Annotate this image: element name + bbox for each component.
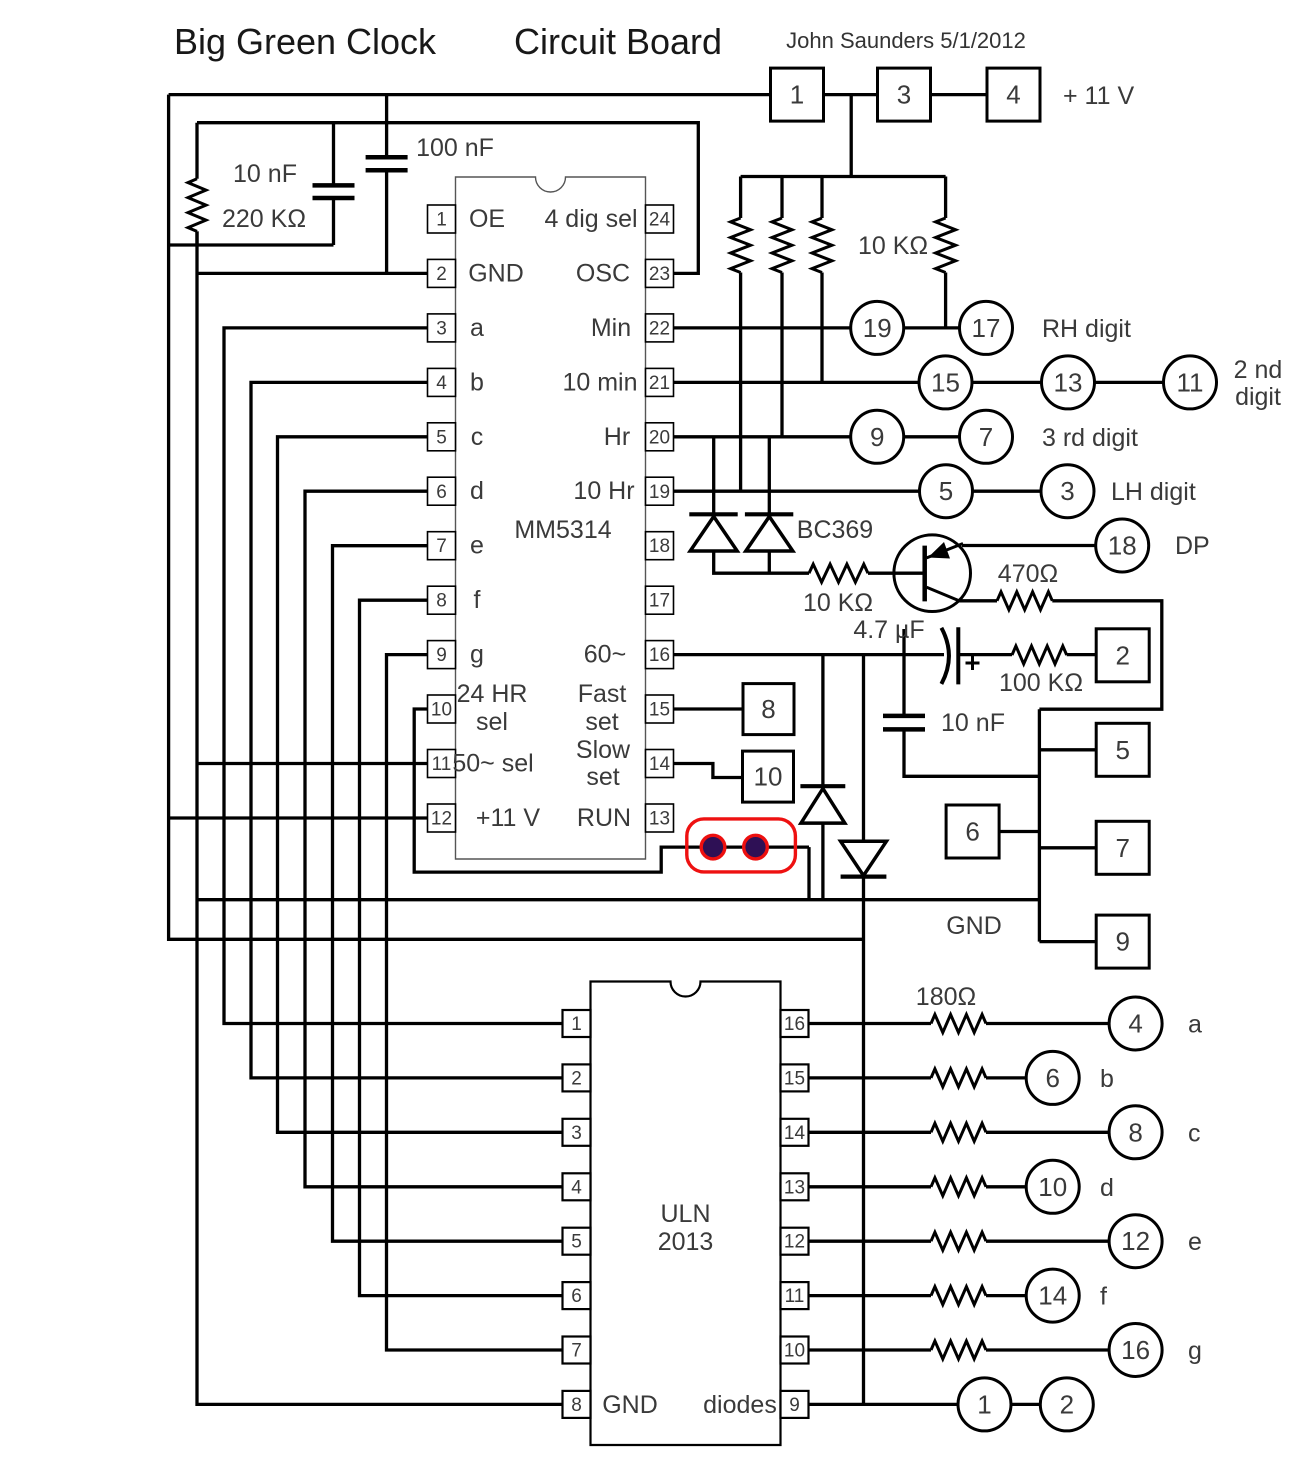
node pad 14 segment f bbox=[1026, 1269, 1079, 1322]
svg-text:7: 7 bbox=[436, 536, 447, 557]
svg-text:4: 4 bbox=[436, 373, 447, 394]
svg-text:Hr: Hr bbox=[604, 423, 630, 451]
svg-text:10 Hr: 10 Hr bbox=[573, 477, 634, 505]
capacitor 10 nF plates bbox=[313, 185, 355, 198]
wire Q1 emitter to pad 18 (DP) bbox=[962, 544, 1096, 547]
svg-text:MM5314: MM5314 bbox=[514, 516, 611, 544]
wire ULN pin 10 to 180 ohm resistor bbox=[809, 1348, 932, 1351]
node pad 2 square bbox=[1096, 629, 1149, 682]
resistor 180 ohm row 10 bbox=[931, 1341, 986, 1359]
wire 180 ohm resistor to pad, row 13 bbox=[986, 1185, 1026, 1188]
node pad 9 bbox=[851, 410, 904, 463]
svg-text:17: 17 bbox=[972, 313, 1001, 343]
wire OSC net: top line, right drop into pin 23 bbox=[197, 123, 698, 274]
pin 13 MM5314 bbox=[646, 804, 674, 832]
svg-text:Big Green Clock: Big Green Clock bbox=[174, 21, 437, 62]
svg-text:22: 22 bbox=[649, 318, 670, 339]
op-chip U2 ULN2013 body bbox=[591, 982, 781, 1446]
svg-text:diodes: diodes bbox=[703, 1391, 777, 1419]
capacitor 10 nF lower bbox=[883, 716, 925, 730]
node pad 18 (DP) bbox=[1096, 519, 1149, 572]
node pad 4 segment a bbox=[1109, 997, 1162, 1050]
pin 9 MM5314 bbox=[428, 641, 456, 669]
svg-text:11: 11 bbox=[1177, 367, 1204, 397]
wire +11V top frame to connector 1 bbox=[169, 93, 771, 96]
pin 18 MM5314 bbox=[646, 532, 674, 560]
pin 19 MM5314 bbox=[646, 477, 674, 505]
svg-text:12: 12 bbox=[784, 1232, 805, 1253]
svg-text:2: 2 bbox=[436, 264, 447, 285]
svg-text:7: 7 bbox=[571, 1341, 582, 1362]
pin 21 MM5314 bbox=[646, 368, 674, 396]
svg-text:7: 7 bbox=[979, 422, 993, 452]
pin 4 MM5314 bbox=[428, 368, 456, 396]
pin 20 MM5314 bbox=[646, 423, 674, 451]
pin 23 MM5314 bbox=[646, 259, 674, 287]
capacitor 4.7uF polarized bbox=[941, 627, 979, 684]
svg-text:10: 10 bbox=[1038, 1172, 1067, 1202]
node pad 5 bbox=[920, 465, 973, 518]
wire drop from +11V to pullup distribution bbox=[850, 95, 853, 177]
wire ULN pin 13 to 180 ohm resistor bbox=[809, 1185, 932, 1188]
svg-text:9: 9 bbox=[789, 1395, 800, 1416]
svg-text:8: 8 bbox=[436, 591, 447, 612]
wire pad 15 to pad 13 bbox=[972, 381, 1042, 384]
wire 100K resistor to pad 2 bbox=[1067, 653, 1097, 656]
svg-text:24 HR: 24 HR bbox=[457, 680, 528, 708]
svg-text:15: 15 bbox=[931, 367, 960, 397]
wire diode D3 bottom lead to GND bus bbox=[821, 823, 824, 900]
node connector pad 3 (+11V) bbox=[878, 68, 931, 121]
svg-text:100 KΩ: 100 KΩ bbox=[999, 669, 1083, 697]
svg-text:sel: sel bbox=[476, 708, 508, 736]
transistor Q1 BC369 bbox=[894, 535, 971, 612]
pin 17 MM5314 bbox=[646, 586, 674, 614]
wire pullup R4 bottom to Min line bbox=[944, 273, 947, 328]
node pad 6 square bbox=[946, 805, 999, 858]
pin 10 MM5314 bbox=[428, 695, 456, 723]
pin 24 MM5314 bbox=[646, 205, 674, 233]
svg-text:7: 7 bbox=[1115, 833, 1129, 863]
wire GND bus horizontal bbox=[197, 898, 1039, 901]
svg-text:2 nd: 2 nd bbox=[1234, 356, 1283, 384]
svg-text:18: 18 bbox=[649, 536, 670, 557]
wire 180 ohm resistor to pad, row 16 bbox=[986, 1022, 1109, 1025]
node pad 6 segment b bbox=[1026, 1051, 1079, 1104]
svg-text:60~: 60~ bbox=[584, 641, 626, 669]
wire 470 resistor right lead down-left to ladder rail bbox=[1039, 601, 1161, 709]
pin 7 ULN2013 bbox=[563, 1337, 591, 1364]
svg-text:470Ω: 470Ω bbox=[998, 560, 1058, 588]
wire segment c: MM5314 pin 5 to ULN2013 pin 3 bbox=[278, 437, 563, 1133]
svg-text:3: 3 bbox=[571, 1123, 582, 1144]
svg-text:15: 15 bbox=[649, 700, 670, 721]
wire segment g: MM5314 pin 9 to ULN2013 pin 7 bbox=[387, 655, 563, 1350]
resistor 180 ohm row 14 bbox=[931, 1123, 986, 1141]
svg-text:5: 5 bbox=[1115, 735, 1129, 765]
svg-text:2: 2 bbox=[1115, 640, 1129, 670]
pin 1 MM5314 bbox=[428, 205, 456, 233]
wire segment a: MM5314 pin 3 to ULN2013 pin 1 bbox=[224, 328, 563, 1024]
svg-text:6: 6 bbox=[1045, 1063, 1059, 1093]
svg-text:11: 11 bbox=[432, 754, 452, 775]
wire GND rail vertical down to ULN pin 8 bbox=[197, 231, 563, 1404]
svg-text:10 KΩ: 10 KΩ bbox=[803, 589, 873, 617]
svg-text:8: 8 bbox=[571, 1395, 582, 1416]
svg-text:Circuit Board: Circuit Board bbox=[514, 21, 722, 62]
resistor 180 ohm row 15 bbox=[931, 1069, 986, 1087]
node pad 13 bbox=[1042, 356, 1095, 409]
svg-text:f: f bbox=[1100, 1283, 1107, 1311]
wire ULN pin 16 to 180 ohm resistor bbox=[809, 1022, 932, 1025]
svg-text:4.7 µF: 4.7 µF bbox=[853, 616, 924, 644]
svg-text:2: 2 bbox=[1060, 1389, 1074, 1419]
svg-text:2: 2 bbox=[571, 1068, 582, 1089]
wire 180 ohm resistor to pad, row 14 bbox=[986, 1131, 1109, 1134]
wire ladder rail vertical bbox=[1038, 709, 1041, 941]
wire 10nF cap bottom lead to ladder rail bbox=[904, 729, 1039, 776]
node pad 2 bottom bbox=[1040, 1378, 1093, 1431]
node pad 10 square bbox=[743, 751, 794, 802]
svg-text:4: 4 bbox=[1128, 1009, 1142, 1039]
svg-text:Slow: Slow bbox=[576, 736, 631, 764]
wire pad 13 to pad 11 bbox=[1095, 381, 1164, 384]
pin 7 MM5314 bbox=[428, 532, 456, 560]
wire 10K base resistor to Q1 base bbox=[868, 572, 925, 575]
wire Fast set: pin 15 to pad 8 bbox=[674, 707, 744, 710]
resistor 180 ohm row 11 bbox=[931, 1287, 986, 1305]
svg-text:c: c bbox=[471, 423, 484, 451]
resistor 10K pullup R2 bbox=[772, 177, 792, 273]
pin 2 ULN2013 bbox=[563, 1064, 591, 1091]
svg-text:13: 13 bbox=[649, 809, 670, 830]
svg-text:10: 10 bbox=[754, 762, 783, 792]
node pad 8 segment c bbox=[1109, 1106, 1162, 1159]
wire pad 5 to pad 3 bbox=[973, 490, 1042, 493]
svg-text:8: 8 bbox=[761, 694, 775, 724]
wire diode D1 cathode to Hr line bbox=[712, 437, 715, 515]
svg-text:24: 24 bbox=[649, 210, 671, 231]
node pad 17 bbox=[960, 301, 1013, 354]
pin 10 ULN2013 bbox=[781, 1337, 809, 1364]
node pad 11 bbox=[1164, 356, 1217, 409]
svg-text:c: c bbox=[1188, 1119, 1201, 1147]
svg-text:3: 3 bbox=[436, 318, 447, 339]
resistor 470 ohm bbox=[997, 592, 1052, 610]
resistor 100K bbox=[1012, 646, 1067, 664]
wire 180 ohm resistor to pad, row 11 bbox=[986, 1294, 1026, 1297]
wire D2 anode down to base wire bbox=[768, 551, 771, 573]
svg-text:Fast: Fast bbox=[578, 680, 627, 708]
wire 60~: pin 16 to 4.7uF cap bbox=[674, 653, 945, 656]
svg-text:220 KΩ: 220 KΩ bbox=[222, 205, 306, 233]
svg-text:RUN: RUN bbox=[577, 804, 631, 832]
node pad 19 bbox=[851, 301, 904, 354]
svg-text:17: 17 bbox=[649, 591, 670, 612]
svg-text:10 min: 10 min bbox=[562, 368, 637, 396]
wire pad 6 square to rail bbox=[999, 830, 1040, 833]
pin 3 MM5314 bbox=[428, 314, 456, 342]
pin 14 ULN2013 bbox=[781, 1119, 809, 1146]
wire 10 min: pin 21 to pad 15 bbox=[674, 381, 920, 384]
svg-text:100 nF: 100 nF bbox=[416, 134, 494, 162]
svg-text:digit: digit bbox=[1235, 383, 1281, 411]
svg-text:4 dig sel: 4 dig sel bbox=[544, 205, 637, 233]
svg-text:e: e bbox=[1188, 1228, 1202, 1256]
pin 11 ULN2013 bbox=[781, 1282, 809, 1309]
svg-text:8: 8 bbox=[1128, 1117, 1142, 1147]
wire segment d: MM5314 pin 6 to ULN2013 pin 4 bbox=[305, 491, 563, 1187]
wire MM5314 pin 11 (50~ sel) to GND rail bbox=[197, 762, 428, 765]
wire diode D2 cathode to Hr line bbox=[768, 437, 771, 515]
diode D2 bbox=[745, 514, 793, 551]
svg-text:9: 9 bbox=[1115, 927, 1129, 957]
svg-text:10: 10 bbox=[431, 700, 452, 721]
svg-text:ULN: ULN bbox=[660, 1200, 710, 1228]
node pad 1 bottom bbox=[958, 1378, 1011, 1431]
pin 3 ULN2013 bbox=[563, 1119, 591, 1146]
connector red jumper block bbox=[687, 819, 796, 872]
svg-text:4: 4 bbox=[571, 1177, 582, 1198]
pin 16 MM5314 bbox=[646, 641, 674, 669]
svg-text:9: 9 bbox=[870, 422, 884, 452]
node pad 7 square bbox=[1096, 821, 1149, 874]
wire diode D4 chain from 60~ line down to ULN diodes line bbox=[862, 655, 865, 1405]
wire connector 1 to 3 bbox=[824, 93, 878, 96]
svg-text:5: 5 bbox=[939, 476, 953, 506]
svg-text:3 rd digit: 3 rd digit bbox=[1042, 424, 1138, 452]
svg-text:14: 14 bbox=[784, 1123, 806, 1144]
wire ULN pin 15 to 180 ohm resistor bbox=[809, 1076, 932, 1079]
wire Hr: pin 20 to pad 9 bbox=[674, 435, 852, 438]
wire ULN pin 11 to 180 ohm resistor bbox=[809, 1294, 932, 1297]
svg-text:OSC: OSC bbox=[576, 259, 630, 287]
svg-text:21: 21 bbox=[649, 373, 670, 394]
svg-text:12: 12 bbox=[1121, 1226, 1150, 1256]
svg-text:10 nF: 10 nF bbox=[233, 160, 297, 188]
pin 8 MM5314 bbox=[428, 586, 456, 614]
pin 2 MM5314 bbox=[428, 259, 456, 287]
resistor 220 K ohm bbox=[188, 123, 206, 245]
svg-text:180Ω: 180Ω bbox=[916, 983, 976, 1011]
wire rail to pad 5 square bbox=[1039, 748, 1096, 751]
svg-text:19: 19 bbox=[649, 482, 670, 503]
wire ULN pin 12 to 180 ohm resistor bbox=[809, 1240, 932, 1243]
wire connector 3 to 4 bbox=[930, 93, 987, 96]
svg-text:LH digit: LH digit bbox=[1111, 478, 1196, 506]
svg-text:3: 3 bbox=[897, 80, 911, 110]
pin 1 ULN2013 bbox=[563, 1010, 591, 1037]
pin 22 MM5314 bbox=[646, 314, 674, 342]
svg-text:16: 16 bbox=[649, 645, 670, 666]
node pad 10 segment d bbox=[1026, 1160, 1079, 1213]
wire RC bottom link to +11V rail bbox=[169, 243, 334, 246]
resistor 180 ohm row 13 bbox=[931, 1178, 986, 1196]
capacitor 100 nF bbox=[385, 95, 388, 274]
pin 13 ULN2013 bbox=[781, 1173, 809, 1200]
svg-text:a: a bbox=[1188, 1011, 1202, 1039]
svg-text:10 KΩ: 10 KΩ bbox=[858, 232, 928, 260]
wire pad 9 to pad 7 bbox=[904, 435, 960, 438]
svg-text:d: d bbox=[470, 477, 484, 505]
svg-text:5: 5 bbox=[436, 427, 447, 448]
node pad 7 bbox=[960, 410, 1013, 463]
svg-text:20: 20 bbox=[649, 427, 670, 448]
resistor 10K pullup R3 bbox=[812, 177, 832, 273]
wire Q1 collector to 470 resistor bbox=[957, 599, 997, 602]
pin 12 MM5314 bbox=[428, 804, 456, 832]
svg-text:4: 4 bbox=[1006, 80, 1020, 110]
svg-text:3: 3 bbox=[1060, 476, 1074, 506]
op-chip U1 MM5314 body bbox=[456, 177, 646, 859]
pin 16 ULN2013 bbox=[781, 1010, 809, 1037]
svg-text:g: g bbox=[1188, 1337, 1202, 1365]
svg-text:15: 15 bbox=[784, 1068, 805, 1089]
diode D3 bbox=[800, 786, 845, 823]
pin 14 MM5314 bbox=[646, 750, 674, 778]
pin 8 ULN2013 bbox=[563, 1391, 591, 1418]
svg-text:13: 13 bbox=[784, 1177, 805, 1198]
wire pullup R3 bottom to 10min line bbox=[820, 273, 823, 383]
svg-text:b: b bbox=[470, 368, 484, 396]
svg-text:1: 1 bbox=[571, 1014, 582, 1035]
capacitor 100 nF plates bbox=[366, 157, 408, 170]
node pad 3 bbox=[1041, 465, 1094, 518]
wire pullup distribution line bbox=[741, 175, 946, 178]
svg-text:Min: Min bbox=[591, 314, 631, 342]
svg-text:f: f bbox=[474, 586, 481, 614]
node pad 15 bbox=[919, 356, 972, 409]
pin 15 MM5314 bbox=[646, 695, 674, 723]
node pad 16 segment g bbox=[1109, 1324, 1162, 1377]
svg-text:10: 10 bbox=[784, 1341, 805, 1362]
svg-text:GND: GND bbox=[602, 1391, 658, 1419]
wire pullup R2 bottom to Hr line bbox=[780, 273, 783, 437]
pin 12 ULN2013 bbox=[781, 1228, 809, 1255]
wire Slow set: pin 14 jog to pad 10 bbox=[674, 764, 743, 778]
resistor 10K pullup R1 bbox=[731, 177, 751, 273]
wire ULN pin 9 (diodes) to pad 1 bbox=[809, 1403, 959, 1406]
node pad 9 square bbox=[1096, 915, 1149, 968]
wire 10 Hr: pin 19 to pad 5 bbox=[674, 490, 920, 493]
svg-text:11: 11 bbox=[785, 1286, 805, 1307]
wire 180 ohm resistor to pad, row 10 bbox=[986, 1348, 1109, 1351]
svg-text:set: set bbox=[585, 708, 618, 736]
svg-text:23: 23 bbox=[649, 264, 670, 285]
svg-text:a: a bbox=[470, 314, 484, 342]
wire 4.7uF cap to 100K resistor bbox=[958, 653, 1012, 656]
pin 5 ULN2013 bbox=[563, 1228, 591, 1255]
wire 10nF cap top lead from 60~ line bbox=[902, 629, 905, 716]
pin 6 ULN2013 bbox=[563, 1282, 591, 1309]
wire MM5314 pin 12 (+11V) to +11V rail bbox=[169, 816, 428, 819]
wire segment e: MM5314 pin 7 to ULN2013 pin 5 bbox=[333, 546, 563, 1241]
svg-text:GND: GND bbox=[946, 912, 1002, 940]
svg-text:13: 13 bbox=[1054, 367, 1083, 397]
capacitor 10 nF oscillator bbox=[332, 123, 335, 245]
pin 4 ULN2013 bbox=[563, 1173, 591, 1200]
svg-text:g: g bbox=[470, 641, 484, 669]
wire pullup R1 bottom to 10Hr line bbox=[739, 273, 742, 492]
svg-text:2013: 2013 bbox=[658, 1228, 714, 1256]
wire segment f: MM5314 pin 8 to ULN2013 pin 6 bbox=[360, 600, 563, 1295]
wire segment b: MM5314 pin 4 to ULN2013 pin 2 bbox=[251, 382, 563, 1078]
svg-text:1: 1 bbox=[977, 1389, 991, 1419]
svg-text:14: 14 bbox=[649, 754, 671, 775]
wire Min: pin 22 to pad 19 bbox=[674, 326, 852, 329]
svg-text:BC369: BC369 bbox=[797, 516, 873, 544]
resistor 180 ohm row 16 bbox=[931, 1015, 986, 1033]
node connector pad 4 (+11V) bbox=[987, 68, 1040, 121]
diode D4 bbox=[841, 841, 887, 876]
wire rail to pad 7 square bbox=[1039, 846, 1096, 849]
wire D1 anode down to base wire bbox=[714, 551, 809, 573]
svg-text:+11 V: +11 V bbox=[476, 804, 540, 832]
wire MM5314 pin 10 (24HR sel) down under chip to red jumper bbox=[414, 709, 809, 872]
pin 6 MM5314 bbox=[428, 477, 456, 505]
node pad 5 square bbox=[1096, 723, 1149, 776]
svg-text:16: 16 bbox=[1121, 1335, 1150, 1365]
svg-text:1: 1 bbox=[436, 210, 447, 231]
pin 11 MM5314 bbox=[428, 750, 456, 778]
resistor 180 ohm row 12 bbox=[931, 1232, 986, 1250]
wire red jumper output down to GND bus bbox=[807, 847, 810, 900]
svg-text:19: 19 bbox=[863, 313, 892, 343]
svg-text:e: e bbox=[470, 532, 484, 560]
svg-text:b: b bbox=[1100, 1065, 1114, 1093]
node connector pad 1 (+11V) bbox=[771, 68, 824, 121]
svg-text:John Saunders 5/1/2012: John Saunders 5/1/2012 bbox=[786, 28, 1026, 53]
svg-text:DP: DP bbox=[1175, 532, 1210, 560]
wire pad 19 to pad 17 bbox=[904, 326, 960, 329]
svg-text:1: 1 bbox=[790, 80, 804, 110]
svg-text:50~ sel: 50~ sel bbox=[452, 750, 533, 778]
pin 9 ULN2013 bbox=[781, 1391, 809, 1418]
resistor 10K pullup R4 bbox=[936, 177, 956, 273]
svg-text:5: 5 bbox=[571, 1232, 582, 1253]
wire +11V left rail down to +11V bus bbox=[169, 95, 864, 940]
node pad 8 square bbox=[743, 684, 794, 735]
svg-text:RH digit: RH digit bbox=[1042, 315, 1131, 343]
svg-text:GND: GND bbox=[468, 259, 524, 287]
svg-text:16: 16 bbox=[784, 1014, 805, 1035]
svg-text:9: 9 bbox=[436, 645, 447, 666]
wire ULN pin 14 to 180 ohm resistor bbox=[809, 1131, 932, 1134]
pin 5 MM5314 bbox=[428, 423, 456, 451]
wire pad 1 to pad 2 bottom bbox=[1011, 1403, 1040, 1406]
svg-text:set: set bbox=[586, 763, 619, 791]
svg-text:14: 14 bbox=[1038, 1281, 1067, 1311]
svg-text:12: 12 bbox=[431, 809, 452, 830]
svg-text:10 nF: 10 nF bbox=[941, 709, 1005, 737]
svg-text:6: 6 bbox=[965, 817, 979, 847]
svg-text:d: d bbox=[1100, 1174, 1114, 1202]
diode D1 bbox=[689, 514, 737, 551]
svg-text:6: 6 bbox=[571, 1286, 582, 1307]
svg-text:6: 6 bbox=[436, 482, 447, 503]
wire 180 ohm resistor to pad, row 12 bbox=[986, 1240, 1109, 1243]
resistor 10K base bbox=[809, 564, 868, 582]
svg-text:OE: OE bbox=[469, 205, 505, 233]
wire 180 ohm resistor to pad, row 15 bbox=[986, 1076, 1026, 1079]
wire GND to MM5314 pin 2 bbox=[197, 272, 428, 275]
wire rail bottom to pad 9 square bbox=[1039, 940, 1096, 943]
svg-text:+ 11 V: + 11 V bbox=[1063, 82, 1134, 110]
node pad 12 segment e bbox=[1109, 1215, 1162, 1268]
wire diode D3 top lead from 60~ line bbox=[821, 655, 824, 787]
svg-text:18: 18 bbox=[1108, 531, 1137, 561]
pin 15 ULN2013 bbox=[781, 1064, 809, 1091]
